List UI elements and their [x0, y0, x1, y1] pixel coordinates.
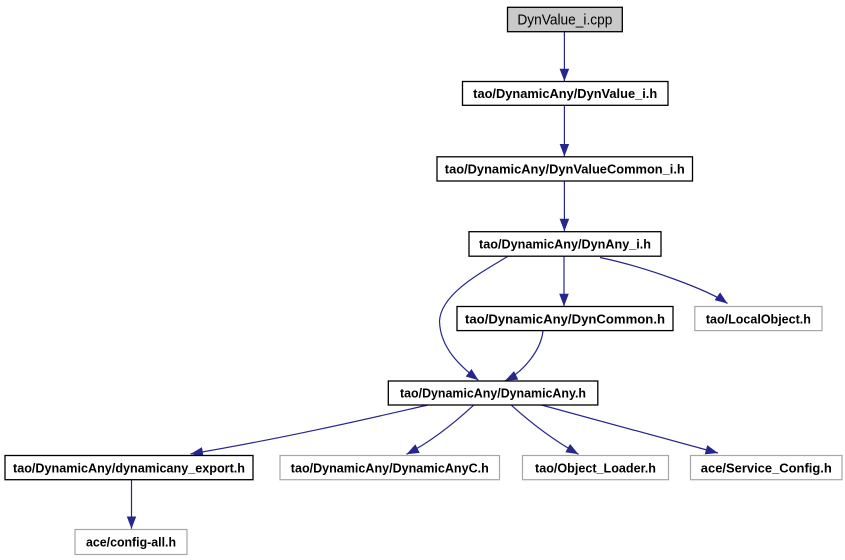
node tao/DynamicAny/DynamicAnyC.h: [280, 456, 500, 480]
node ace/config-all.h: [75, 530, 187, 555]
wire DynamicAny.h -> DynamicAnyC.h: [407, 405, 474, 454]
node tao/DynamicAny/DynCommon.h: [457, 307, 673, 331]
svg-text:tao/DynamicAny/DynValueCommon_: tao/DynamicAny/DynValueCommon_i.h: [445, 162, 685, 177]
svg-text:tao/DynamicAny/DynAny_i.h: tao/DynamicAny/DynAny_i.h: [479, 237, 651, 252]
svg-text:tao/DynamicAny/DynamicAny.h: tao/DynamicAny/DynamicAny.h: [400, 386, 586, 401]
wire dynamicany_export.h -> config-all.h: [131, 480, 133, 529]
node tao/DynamicAny/DynamicAny.h: [388, 381, 598, 405]
wire DynValue_i.h -> DynValueCommon_i.h: [563, 105, 565, 156]
node tao/DynamicAny/DynValue_i.h: [463, 82, 669, 106]
svg-text:tao/Object_Loader.h: tao/Object_Loader.h: [535, 460, 656, 475]
svg-text:ace/config-all.h: ace/config-all.h: [86, 535, 176, 550]
svg-text:DynValue_i.cpp: DynValue_i.cpp: [517, 13, 612, 29]
wire DynAny_i.h -> DynamicAny.h (curved): [440, 257, 508, 381]
wire DynCommon.h -> DynamicAny.h: [505, 331, 543, 381]
node tao/DynamicAny/dynamicany_export.h: [5, 456, 253, 480]
svg-text:tao/DynamicAny/DynValue_i.h: tao/DynamicAny/DynValue_i.h: [473, 86, 657, 101]
wire DynValue_i.cpp -> DynValue_i.h: [563, 32, 565, 81]
wire DynamicAny.h -> dynamicany_export.h: [191, 405, 429, 454]
svg-text:tao/LocalObject.h: tao/LocalObject.h: [706, 311, 811, 326]
svg-text:tao/DynamicAny/DynCommon.h: tao/DynamicAny/DynCommon.h: [465, 311, 665, 326]
node DynValue_i.cpp (root): [508, 7, 623, 31]
svg-text:tao/DynamicAny/DynamicAnyC.h: tao/DynamicAny/DynamicAnyC.h: [291, 460, 489, 475]
svg-text:ace/Service_Config.h: ace/Service_Config.h: [701, 460, 832, 475]
node ace/Service_Config.h: [691, 456, 843, 480]
node tao/Object_Loader.h: [523, 456, 669, 480]
node tao/DynamicAny/DynAny_i.h: [469, 232, 661, 257]
wire DynAny_i.h -> LocalObject.h: [600, 258, 728, 304]
node tao/DynamicAny/DynValueCommon_i.h: [437, 157, 693, 181]
wire DynamicAny.h -> Object_Loader.h: [512, 405, 579, 454]
node tao/LocalObject.h: [695, 307, 822, 331]
wire DynamicAny.h -> Service_Config.h: [542, 405, 719, 453]
svg-text:tao/DynamicAny/dynamicany_expo: tao/DynamicAny/dynamicany_export.h: [13, 460, 245, 475]
wire DynValueCommon_i.h -> DynAny_i.h: [563, 181, 565, 231]
wire DynAny_i.h -> DynCommon.h: [563, 257, 565, 307]
